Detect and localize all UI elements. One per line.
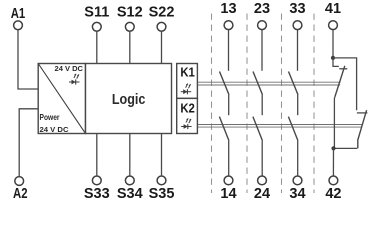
- dashed separator line 3: [281, 14, 283, 194]
- mid wire: [261, 95, 263, 115]
- svg-text:Power: Power: [40, 113, 61, 122]
- terminal S12: [117, 4, 143, 31]
- svg-text:24: 24: [254, 186, 270, 202]
- terminal S33: [84, 176, 110, 202]
- K1 NC fixed terminal: [333, 58, 339, 67]
- wire blade1 down: [333, 97, 336, 149]
- K1 NC blade: [335, 66, 345, 97]
- contact 13-14: [219, 1, 236, 202]
- power supply box: [38, 64, 85, 134]
- svg-text:S35: S35: [149, 186, 175, 202]
- svg-text:S11: S11: [84, 4, 109, 20]
- svg-text:K1: K1: [180, 65, 195, 79]
- wire S33: [96, 134, 98, 176]
- svg-text:Logic: Logic: [112, 91, 146, 108]
- terminal A2: [13, 177, 28, 202]
- wire S22: [161, 31, 163, 63]
- svg-text:34: 34: [289, 186, 305, 202]
- svg-text:13: 13: [220, 1, 236, 17]
- svg-text:S34: S34: [117, 186, 143, 202]
- logic box: [86, 64, 172, 134]
- wire to 24: [261, 141, 263, 177]
- wire jog right top: [333, 58, 357, 110]
- node junction bottom: [331, 146, 335, 150]
- svg-text:23: 23: [254, 1, 270, 17]
- NC feedback circuit 41-42: [325, 1, 367, 202]
- wire to 14: [228, 141, 230, 177]
- mid wire: [297, 95, 299, 115]
- terminal A1: [11, 6, 26, 30]
- K2 NC seat bar: [357, 112, 368, 114]
- contact 33-34: [288, 1, 305, 202]
- wire to 42: [332, 148, 334, 176]
- wire S34: [129, 134, 131, 176]
- relay K1 box: [177, 64, 198, 99]
- K2 NC blade: [358, 110, 367, 148]
- K1 NO blade: [289, 72, 299, 95]
- wire 33 down: [297, 30, 299, 71]
- svg-text:S33: S33: [84, 186, 110, 202]
- svg-text:24 V DC: 24 V DC: [40, 125, 70, 134]
- LED power: [69, 74, 80, 85]
- power box diagonal: [38, 64, 85, 134]
- terminal 34: [293, 176, 302, 185]
- terminal 42: [329, 176, 338, 185]
- wire A2 to power box: [19, 109, 38, 177]
- wire S12: [129, 31, 131, 63]
- mid wire: [228, 95, 230, 115]
- relay K2 box: [177, 98, 198, 133]
- svg-text:S22: S22: [149, 4, 175, 20]
- dashed separator line 2: [246, 14, 248, 194]
- wire A1 to power box: [18, 30, 38, 89]
- LED K2: [181, 118, 192, 129]
- svg-text:42: 42: [325, 186, 341, 202]
- svg-text:33: 33: [289, 1, 305, 17]
- wire to 34: [297, 141, 299, 177]
- dashed separator line 4: [313, 14, 315, 194]
- node junction top: [331, 56, 335, 60]
- terminal 14: [224, 176, 233, 185]
- K1 NO blade: [220, 72, 230, 95]
- K1 NC seat bar: [339, 68, 347, 70]
- terminal S34: [117, 176, 143, 202]
- svg-text:A2: A2: [13, 186, 28, 202]
- mechanical linkage rails K2: [197, 125, 362, 128]
- svg-text:14: 14: [220, 186, 236, 202]
- K1 NO blade: [253, 72, 263, 95]
- wire 13 down: [228, 30, 230, 71]
- contact 23-24: [253, 1, 270, 202]
- wire S35: [161, 134, 163, 176]
- LED K1: [181, 84, 192, 95]
- svg-text:24 V DC: 24 V DC: [55, 66, 84, 73]
- terminal S22: [149, 4, 175, 31]
- svg-text:41: 41: [325, 1, 341, 17]
- terminal S11: [84, 4, 109, 31]
- dashed separator line 1: [211, 14, 213, 194]
- wire S11: [96, 31, 98, 63]
- svg-text:S12: S12: [117, 4, 143, 20]
- svg-text:K2: K2: [180, 102, 195, 116]
- mechanical linkage rails K1: [197, 82, 340, 85]
- bottom return wire: [334, 147, 358, 149]
- wire 23 down: [261, 30, 263, 71]
- K2 NO blade: [253, 117, 263, 141]
- K2 NO blade: [288, 117, 298, 141]
- wire 41 down: [332, 30, 334, 58]
- K2 NO blade: [219, 117, 229, 141]
- terminal 24: [258, 176, 267, 185]
- svg-text:A1: A1: [11, 6, 26, 22]
- terminal S35: [149, 176, 175, 202]
